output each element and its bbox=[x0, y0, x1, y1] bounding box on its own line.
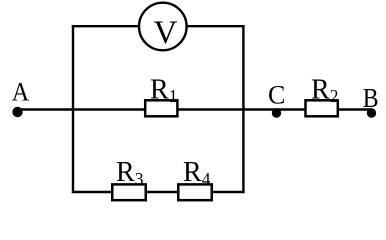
wire: bottom horizontal from R4 to right branch bbox=[212, 191, 245, 193]
node C junction dot bbox=[272, 108, 281, 117]
wire: top horizontal from voltmeter to right branch bbox=[188, 25, 245, 27]
node A terminal dot bbox=[12, 107, 22, 117]
resistor R1 bbox=[145, 100, 177, 116]
wire: main horizontal from R2 right terminal to node B bbox=[339, 108, 373, 110]
wire: right vertical branch of parallel loop bbox=[242, 25, 244, 193]
svg-text:R1: R1 bbox=[150, 75, 177, 106]
svg-text:R3: R3 bbox=[116, 157, 144, 189]
wire: top horizontal from left branch to voltmeter bbox=[72, 25, 139, 27]
wire: left vertical branch of parallel loop bbox=[72, 25, 74, 193]
wire: main horizontal from node A to R1 left terminal bbox=[17, 108, 145, 110]
svg-text:C: C bbox=[268, 81, 285, 110]
resistor R3 bbox=[112, 184, 146, 200]
svg-text:R2: R2 bbox=[311, 75, 338, 106]
svg-text:V: V bbox=[154, 15, 178, 51]
wire: bottom horizontal from left branch to R3 bbox=[72, 191, 112, 193]
resistor R4 bbox=[178, 184, 212, 200]
svg-text:R4: R4 bbox=[183, 157, 211, 189]
resistor R2 bbox=[306, 100, 338, 116]
wire: bottom horizontal between R3 and R4 bbox=[146, 191, 179, 193]
node B terminal dot bbox=[367, 108, 376, 117]
svg-text:B: B bbox=[363, 83, 379, 114]
voltmeter V bbox=[139, 3, 187, 51]
wire: main horizontal from R1 right terminal to R2 left terminal (through node C) bbox=[178, 108, 305, 110]
svg-text:A: A bbox=[12, 79, 29, 107]
